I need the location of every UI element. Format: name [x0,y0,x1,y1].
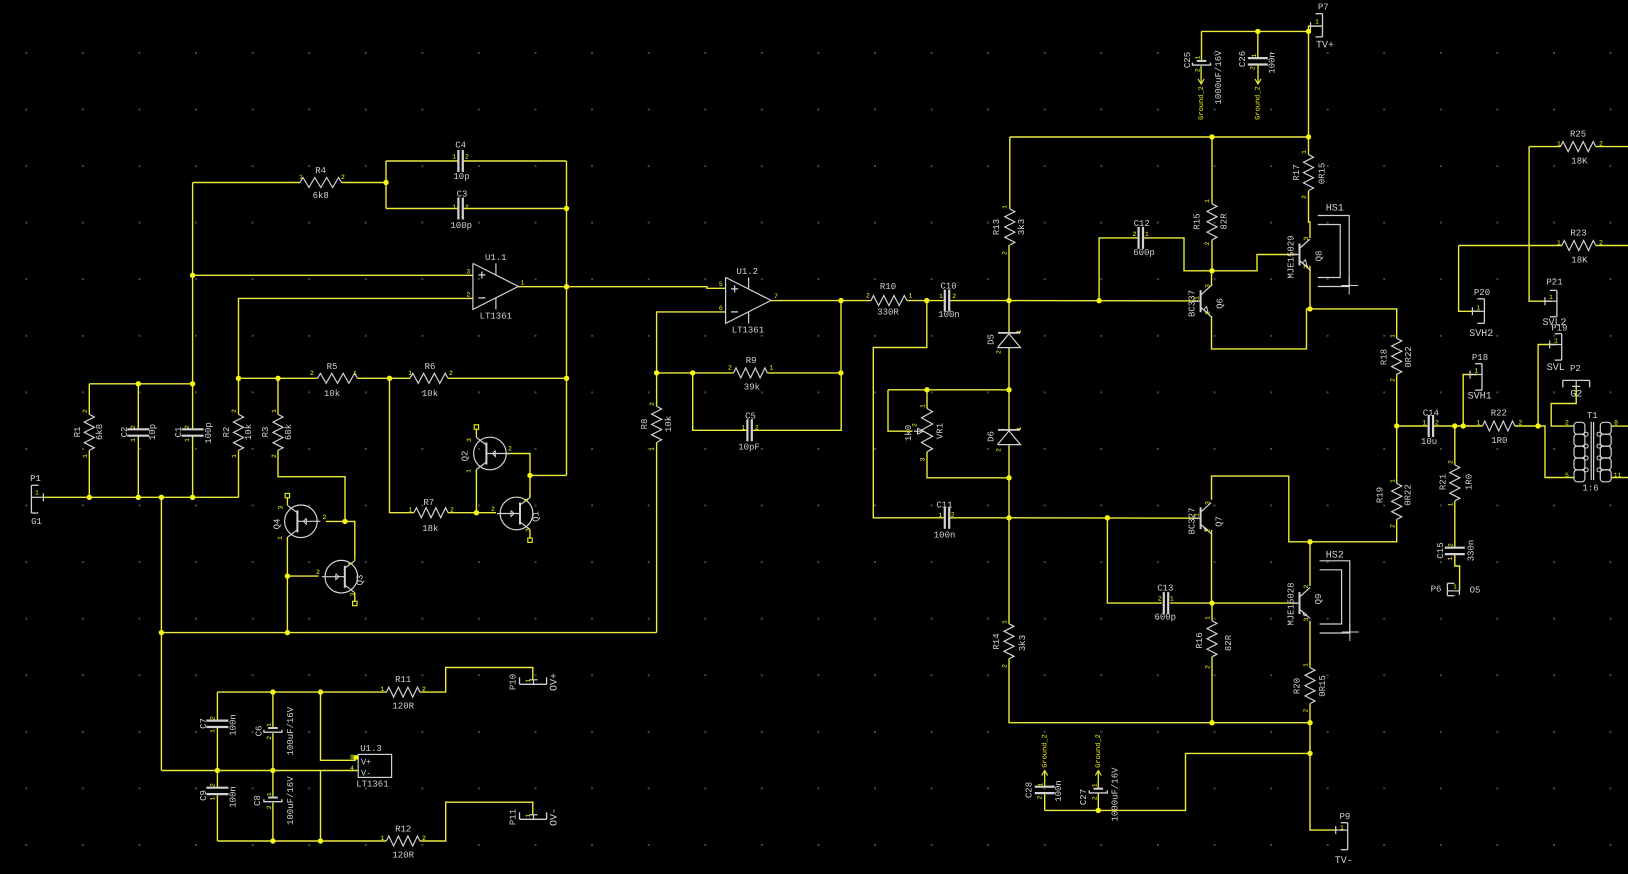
svg-text:C3: C3 [457,190,468,200]
svg-text:1: 1 [939,512,943,519]
svg-text:1: 1 [1448,502,1455,506]
junction [1006,387,1011,392]
wire [448,512,476,514]
wire [529,533,531,538]
wire [137,384,139,430]
wire [321,692,356,760]
svg-text:2: 2 [1389,524,1396,528]
svg-text:6: 6 [719,305,723,312]
transistor Q8 MJE15029 [1299,244,1301,266]
svg-text:P19: P19 [1551,324,1567,334]
svg-text:R19: R19 [1375,487,1385,503]
svg-text:100n: 100n [228,786,238,808]
svg-text:C4: C4 [455,141,466,151]
svg-text:2: 2 [450,507,454,514]
wire [1611,425,1628,427]
svg-text:3: 3 [525,528,532,532]
wire [216,771,218,788]
capacitor C15 330n [1445,547,1465,549]
svg-text:C15: C15 [1436,542,1446,558]
junction [159,630,164,635]
svg-text:1: 1 [409,370,413,377]
junction [1461,423,1466,428]
resistor R9 39k [734,368,768,378]
svg-text:10p: 10p [148,424,158,440]
svg-text:HS2: HS2 [1326,551,1344,562]
svg-text:C11: C11 [936,501,952,511]
wire [767,372,841,374]
svg-text:R22: R22 [1491,409,1507,419]
wire [1211,240,1213,271]
svg-text:2: 2 [422,835,426,842]
junction [136,495,141,500]
wire [192,384,194,430]
svg-text:2: 2 [210,716,217,720]
capacitor C9 100n [206,787,228,789]
connector P11 [520,818,547,820]
capacitor C7 100n [206,719,228,721]
connector P20 SVH2 [1483,299,1485,324]
svg-text:1: 1 [271,409,278,413]
svg-text:2: 2 [316,569,320,576]
svg-text:2: 2 [1204,241,1211,245]
svg-text:1: 1 [1447,556,1454,560]
svg-text:1: 1 [277,536,284,540]
svg-text:2: 2 [491,506,495,513]
svg-text:2: 2 [1565,420,1569,427]
junction [654,370,659,375]
svg-text:C7: C7 [199,718,209,729]
wire [1008,445,1010,478]
svg-text:1: 1 [1194,513,1201,517]
svg-text:1: 1 [1557,239,1561,246]
wire [657,312,726,373]
wire [1538,426,1574,478]
svg-text:R4: R4 [315,166,326,176]
wire [1097,793,1099,810]
junction [690,370,695,375]
wire [927,452,1009,478]
wire [464,160,567,162]
wire [1009,300,1199,302]
wire [272,803,274,841]
wire [277,378,279,414]
svg-text:C26: C26 [1238,51,1248,67]
svg-text:2: 2 [1448,460,1455,464]
svg-text:1: 1 [231,454,238,458]
svg-text:P2: P2 [1570,364,1581,374]
svg-text:100n: 100n [1054,780,1064,802]
svg-text:10p: 10p [453,172,469,182]
wire [1308,31,1310,137]
svg-text:10k: 10k [422,389,438,399]
junction [1096,808,1101,813]
wire [530,474,567,476]
junction [1209,134,1214,139]
wire [888,390,913,431]
capacitor C8 100uF/16V [268,797,278,799]
wire [272,692,274,727]
svg-text:R20: R20 [1292,678,1302,694]
resistor R18 0R22 [1392,338,1402,374]
svg-text:R5: R5 [327,362,338,372]
junction [285,573,290,578]
svg-text:VR1: VR1 [935,423,945,439]
svg-text:C8: C8 [253,795,263,806]
junction [387,376,392,381]
wire [1211,271,1213,286]
svg-text:1: 1 [1554,338,1558,345]
connector P7 [1322,14,1324,37]
junction [383,180,388,185]
svg-text:2: 2 [271,454,278,458]
svg-text:1: 1 [266,723,273,727]
svg-text:7: 7 [774,293,778,300]
junction [318,838,323,843]
op-amp U1.2 LT1361 [726,277,772,323]
svg-text:C13: C13 [1157,584,1173,594]
wire [529,475,531,497]
svg-text:330R: 330R [877,308,899,318]
wire [1611,477,1628,479]
resistor R20 0R15 [1305,668,1315,704]
capacitor C13 600p [1163,592,1165,614]
wire [1309,26,1322,31]
wire [1454,426,1456,465]
junction [564,206,569,211]
svg-text:1: 1 [348,561,355,565]
junction [1006,515,1011,520]
svg-text:1: 1 [210,796,217,800]
svg-text:R15: R15 [1192,213,1202,229]
svg-text:0R22: 0R22 [1404,346,1414,368]
svg-text:1: 1 [210,729,217,733]
svg-text:10k: 10k [324,389,340,399]
wire [771,300,871,302]
svg-text:100p: 100p [450,221,472,231]
svg-text:C27: C27 [1079,789,1089,805]
svg-text:100n: 100n [934,531,956,541]
svg-text:R18: R18 [1379,349,1389,365]
svg-text:R17: R17 [1292,164,1302,180]
svg-text:G2: G2 [1570,390,1582,401]
junction [564,284,569,289]
svg-text:Q4: Q4 [272,519,282,530]
wire [286,576,288,633]
svg-text:18K: 18K [1571,256,1588,266]
svg-text:P18: P18 [1472,353,1488,363]
svg-text:P7: P7 [1318,3,1329,13]
svg-text:1: 1 [1549,294,1553,301]
svg-text:2: 2 [1599,141,1603,148]
junction [1006,475,1011,480]
wire [1454,501,1456,548]
wire [873,301,943,518]
svg-text:1: 1 [523,497,530,501]
svg-text:1: 1 [1091,783,1098,787]
junction [1535,423,1540,428]
capacitor C4 10p [457,150,459,172]
wire [1212,476,1311,542]
junction [270,838,275,843]
wire [888,389,1009,391]
wire [840,301,842,373]
svg-text:2: 2 [130,425,137,429]
svg-text:3: 3 [466,438,473,442]
svg-text:LT1361: LT1361 [480,312,512,322]
wire [1211,657,1213,723]
svg-text:8: 8 [1614,420,1618,427]
svg-text:V-: V- [361,768,371,778]
wire [1309,621,1311,668]
svg-text:Ground_2: Ground_2 [1094,734,1103,768]
transistor Q3 [325,560,358,593]
connector P21 SVL2 [1556,290,1558,316]
svg-text:R2: R2 [222,427,232,438]
svg-text:0R15: 0R15 [1317,163,1327,185]
svg-text:2: 2 [866,293,870,300]
wire [286,537,288,576]
wire [1455,554,1460,591]
svg-text:4: 4 [350,765,354,772]
svg-text:R25: R25 [1570,130,1586,140]
junction [1209,600,1214,605]
svg-text:Q3: Q3 [355,575,365,586]
svg-text:3k3: 3k3 [1017,219,1027,235]
wire [88,450,90,497]
wire [1170,602,1212,604]
svg-text:C12: C12 [1134,219,1150,229]
svg-text:1: 1 [1340,825,1344,832]
junction [838,298,843,303]
svg-text:R13: R13 [992,219,1002,235]
junction [159,495,164,500]
svg-text:2: 2 [210,783,217,787]
wire [1529,147,1552,302]
junction [270,689,275,694]
junction [1006,298,1011,303]
wire [1211,530,1213,603]
transistor Q4 [285,505,318,538]
svg-text:10u: 10u [1421,437,1437,447]
svg-text:2: 2 [341,174,345,181]
junction [318,689,323,694]
wire [950,517,1009,519]
capacitor C28 100n [1035,786,1055,788]
junction [1209,720,1214,725]
svg-text:2: 2 [266,805,273,809]
svg-text:1: 1 [381,835,385,842]
svg-text:2: 2 [1194,68,1201,72]
svg-text:1: 1 [1016,329,1023,333]
svg-text:5: 5 [719,281,723,288]
capacitor C2 10p [127,428,149,430]
svg-text:1: 1 [130,438,137,442]
wire [217,840,386,842]
svg-text:1: 1 [353,370,357,377]
wire [1310,519,1397,541]
capacitor C1 100p [182,428,204,430]
wire [192,183,194,384]
svg-text:39k: 39k [744,383,760,393]
svg-text:100uF/16V: 100uF/16V [286,706,296,755]
wire [1596,245,1628,247]
svg-text:3: 3 [920,457,927,461]
transistor Q9 MJE15028 [1299,592,1301,614]
svg-text:120R: 120R [392,851,414,861]
wire [1396,426,1398,483]
svg-text:1: 1 [466,469,473,473]
svg-text:1: 1 [1038,782,1045,786]
svg-text:3: 3 [278,505,285,509]
wire [1144,238,1212,271]
svg-text:2: 2 [1133,231,1137,238]
svg-text:R23: R23 [1570,229,1586,239]
wire [216,727,218,771]
wire [518,287,726,289]
wire [287,575,318,577]
svg-text:100p: 100p [204,422,214,444]
diode D5 [998,332,1020,334]
svg-text:1000uF/16V: 1000uF/16V [1214,50,1224,105]
junction [1307,751,1312,756]
junction [270,768,275,773]
resistor R5 10k [318,373,358,383]
wire [907,300,944,302]
resistor R14 3k3 [1004,624,1014,659]
svg-text:C25: C25 [1183,52,1193,68]
wire [1308,137,1310,155]
svg-text:MJE15029: MJE15029 [1286,235,1296,278]
svg-text:2: 2 [465,154,469,161]
svg-text:1: 1 [299,174,303,181]
wire [656,373,658,407]
junction [342,519,347,524]
svg-text:2: 2 [1435,420,1439,427]
svg-text:330n: 330n [1466,540,1476,562]
wire [1212,309,1397,349]
svg-text:2: 2 [184,425,191,429]
wire [1009,137,1011,209]
junction [838,370,843,375]
svg-text:2: 2 [1205,528,1212,532]
wire [448,377,567,379]
wire [656,442,658,632]
wire [753,373,842,430]
wire [193,274,473,276]
wire [192,436,194,498]
svg-text:2: 2 [1303,708,1310,712]
resistor R1 6k8 [84,414,94,450]
wire [1010,136,1309,138]
svg-text:68k: 68k [284,424,294,440]
wire [345,521,355,557]
svg-text:1: 1 [909,293,913,300]
svg-text:1: 1 [1251,53,1258,57]
svg-text:OV+: OV+ [550,673,561,691]
junction [275,376,280,381]
svg-text:U1.3: U1.3 [360,744,382,754]
svg-text:3: 3 [350,592,357,596]
svg-text:1: 1 [1389,479,1396,483]
wire [386,160,458,162]
svg-text:U1.2: U1.2 [736,267,758,277]
svg-text:2: 2 [1205,311,1212,315]
svg-text:BC337: BC337 [1187,290,1197,317]
svg-text:2: 2 [1599,239,1603,246]
wire [1433,425,1482,427]
capacitor C12 600p [1137,227,1139,249]
svg-text:R6: R6 [425,362,436,372]
svg-text:1: 1 [1423,420,1427,427]
capacitor C26 100n [1248,57,1268,59]
svg-text:1: 1 [1002,620,1009,624]
wire [1099,238,1138,301]
svg-text:R14: R14 [992,633,1002,649]
wire [1538,345,1557,427]
svg-text:1: 1 [266,792,273,796]
svg-text:1: 1 [1453,584,1457,591]
svg-text:G1: G1 [31,517,42,527]
svg-text:3: 3 [1205,501,1212,505]
junction [1096,298,1101,303]
svg-text:1: 1 [1557,141,1561,148]
resistor R7 18k [414,508,448,518]
wire [385,161,387,209]
wire [358,377,411,379]
resistor R11 120R [386,687,420,697]
wire [420,802,533,841]
wire [1211,603,1213,621]
svg-text:SVH1: SVH1 [1468,392,1492,403]
junction [1394,423,1399,428]
wire [1202,30,1309,32]
svg-text:3: 3 [1303,617,1310,621]
svg-text:2: 2 [508,446,512,453]
resistor R10 330R [871,296,907,306]
wire [193,182,300,184]
svg-text:1: 1 [1477,305,1481,312]
capacitor C11 100n [944,507,946,529]
wire [1008,478,1010,518]
svg-text:C9: C9 [199,790,209,801]
svg-text:600p: 600p [1133,248,1155,258]
trimmer VR1 1k0 [922,409,933,452]
svg-text:1: 1 [408,507,412,514]
wire [1396,374,1398,426]
svg-text:R3: R3 [261,427,271,438]
svg-text:HS1: HS1 [1326,204,1344,215]
svg-text:1: 1 [1475,368,1479,375]
junction [190,495,195,500]
wire [420,668,533,693]
junction [190,381,195,386]
svg-text:C14: C14 [1423,409,1439,419]
svg-text:1: 1 [525,678,532,682]
svg-text:2: 2 [1037,795,1044,799]
wire [1212,602,1297,604]
svg-text:2: 2 [1091,796,1098,800]
wire [1309,723,1311,754]
wire [1008,348,1010,430]
svg-text:3: 3 [1303,236,1310,240]
svg-text:Q2: Q2 [460,451,470,462]
junction [1452,423,1457,428]
wire [320,771,322,842]
svg-text:P21: P21 [1546,278,1562,288]
junction [564,376,569,381]
svg-text:6k8: 6k8 [95,424,105,440]
